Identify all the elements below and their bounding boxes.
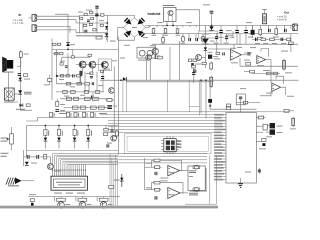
resistor R64 [287, 38, 291, 41]
resistor R35 [77, 82, 82, 85]
part PE3 [101, 70, 104, 72]
capacitor CT1 [215, 34, 218, 42]
wire -rail [140, 33, 299, 35]
wire shield h106 [189, 105, 199, 107]
svg-text:Out: Out [284, 10, 289, 14]
wire stub b1 [61, 57, 63, 63]
resistor R52 [153, 166, 161, 169]
row caption [59, 112, 107, 115]
wire block rail [52, 49, 118, 51]
part row126 a [104, 126, 108, 132]
resistor R8 [164, 28, 167, 35]
wire right h109 [210, 108, 257, 110]
label D9 [210, 40, 215, 43]
rail tick marks [150, 26, 196, 28]
resistor R23 [192, 65, 196, 68]
wire x3 link [289, 110, 294, 112]
wire cluster leg b [82, 23, 84, 33]
capacitor C9b [92, 82, 94, 85]
diode D6 [66, 42, 70, 46]
wire J1 pin2 [37, 20, 76, 23]
junction rail1 [166, 25, 168, 27]
label r219 [219, 36, 224, 39]
label R13 [257, 36, 263, 39]
resistor R14 [275, 27, 278, 36]
part on h103 [244, 101, 248, 104]
resistor R20 [250, 70, 255, 73]
resistor R4 [84, 24, 87, 26]
wire bridge diamond [124, 18, 146, 37]
label Q3 [248, 36, 253, 39]
capacitor C2 [84, 30, 87, 32]
wire bridge AC drop [117, 28, 119, 41]
resistor R50 [292, 117, 295, 127]
label blk d [53, 52, 59, 55]
label tr3 [272, 42, 277, 45]
bottom bus band [0, 206, 218, 209]
capacitor C20 top [95, 6, 99, 9]
part PE2 [90, 72, 93, 78]
capacitor C7 [18, 73, 21, 76]
label R11 [181, 42, 186, 45]
label d10 [208, 51, 213, 54]
label K1 mid [189, 175, 193, 178]
wire row y84 [57, 83, 91, 85]
svg-text:= 2 x 7,5k: = 2 x 7,5k [13, 22, 25, 25]
wire mid rail 2 [126, 81, 214, 83]
part left v [48, 75, 52, 85]
label U11 [170, 193, 176, 196]
wire rd left v [26, 126, 28, 158]
IC U8 [161, 136, 179, 154]
wire q6 stub [91, 68, 93, 74]
wire speaker down [9, 72, 19, 102]
wire q7 stub [104, 68, 106, 70]
connector box K1 shadow [190, 168, 207, 192]
resistor R38 [84, 91, 89, 94]
wire box edge stub3 [256, 131, 263, 133]
resistor R33b [77, 75, 80, 77]
capacitor C12 [27, 155, 30, 159]
wire block v3 [67, 53, 69, 75]
bridge diode B2 [138, 18, 146, 25]
resistor R31b [60, 52, 63, 54]
wire X1 stem [209, 80, 211, 109]
label R7 [152, 34, 157, 37]
resistor R42 [84, 97, 90, 100]
resistor RB2 [71, 56, 74, 58]
bridge label [132, 26, 137, 29]
capacitor CT2 [225, 34, 228, 42]
capacitor C8 [55, 109, 59, 112]
label tr1 [255, 42, 260, 45]
resistor R6 [93, 29, 96, 31]
wire mid stub2b [27, 118, 38, 122]
wire v144 [144, 158, 146, 190]
label U2 [195, 63, 201, 66]
resistor R13 [259, 28, 262, 36]
wire rail links v [163, 34, 203, 38]
wire bridge + right [146, 26, 150, 28]
resistor R18 [283, 59, 286, 71]
wire J1 tick [29, 17, 32, 19]
wire bl v [23, 150, 25, 166]
capacitor C9 [72, 74, 74, 77]
resistor R11 [182, 35, 185, 42]
wire J2 pin2 [37, 30, 76, 33]
transistor Q5 [79, 61, 86, 68]
wire U11 out [180, 192, 188, 194]
diode D4 [18, 90, 22, 94]
resistor R10 [162, 36, 165, 43]
wire bridge top [107, 15, 134, 17]
speaker LS1 [2, 57, 13, 73]
resistor R47 [98, 106, 104, 109]
resistor R34b [85, 82, 90, 85]
transistor Q7b [101, 61, 108, 68]
diode D7 [123, 77, 127, 81]
wire U4 out [266, 60, 271, 83]
resistor comb E1 [177, 141, 182, 148]
misc part a [216, 52, 220, 54]
diode D5 [20, 104, 24, 107]
label tr2 [263, 42, 268, 45]
wire rd rail [27, 125, 119, 127]
wire center v2 [118, 36, 120, 155]
label t216 [214, 42, 219, 45]
diode D10 [204, 47, 207, 51]
wire v80 [79, 72, 81, 84]
transistor Q15 [55, 197, 70, 209]
label blk h [64, 95, 69, 98]
transistor Q12 [266, 129, 275, 134]
wire bl h3 [39, 157, 50, 164]
label out1 [246, 21, 252, 24]
resistor R36 [63, 91, 68, 94]
misc part h [193, 70, 196, 73]
label Q7 [112, 59, 117, 62]
wire v205 [204, 26, 206, 48]
wire cluster rail1 [80, 14, 108, 16]
resistor+diode R-D unit 4 [86, 125, 92, 149]
label R10 [161, 42, 166, 45]
open box shield 2 [124, 134, 211, 154]
wire v 240 [239, 58, 241, 66]
label under U9 a [54, 192, 62, 195]
resistor R34 [66, 82, 71, 85]
diode D1b [105, 26, 108, 29]
resistor+diode R-D unit 3 [73, 125, 79, 149]
wire center v1 [113, 66, 115, 133]
cluster label u [86, 9, 92, 12]
wire row y107 [64, 107, 110, 109]
label r240 [240, 87, 246, 90]
wire block v2 [56, 50, 58, 84]
resistor R5b [100, 24, 103, 26]
resistor RH5 [91, 112, 96, 117]
label rail1b [186, 21, 192, 24]
label BR2 [4, 101, 14, 104]
part X8 [30, 199, 34, 206]
wire q2 down [169, 47, 171, 80]
wire q5 stub [82, 68, 84, 75]
misc label d [244, 59, 250, 62]
label in U1 [202, 33, 209, 36]
label gr [245, 171, 251, 174]
svg-text:heatsink: heatsink [148, 12, 161, 16]
wire row y99 [60, 98, 108, 100]
connector J3 [292, 24, 297, 31]
part X1 [208, 99, 212, 107]
label blk a [59, 78, 64, 81]
label r28b [60, 103, 65, 106]
wire row y92 [56, 91, 104, 93]
transistor Q18 [114, 174, 124, 187]
resistor RH2 [66, 112, 71, 117]
wire stub b2 [72, 50, 74, 56]
resistor RB1 [60, 63, 63, 65]
connector box main [226, 113, 256, 184]
junction a [96, 15, 98, 17]
misc part b [222, 52, 224, 55]
transistor Q6 [89, 61, 96, 68]
zener D2 [209, 26, 213, 30]
resistor R27 [26, 104, 30, 107]
wire v 233b [236, 34, 238, 45]
resistor R17 output [262, 9, 267, 24]
wire shield v4 [188, 80, 190, 111]
resistor R63 [270, 38, 274, 41]
misc part g [202, 62, 206, 64]
label blk e [60, 60, 65, 63]
label U5b [266, 92, 273, 95]
capacitor C1 [95, 14, 99, 17]
wire v89 [88, 84, 90, 92]
part X3 [284, 109, 289, 112]
wire U11 fb right [161, 183, 184, 193]
label R9 [176, 34, 181, 37]
label r281 [281, 50, 288, 53]
tall box K2 [185, 155, 216, 204]
wire v205b [204, 51, 206, 68]
label left v [44, 83, 49, 86]
junction rail3 [172, 25, 174, 27]
resistor R2 [84, 13, 87, 15]
capacitor C4a [219, 26, 223, 34]
mains hatch [6, 178, 16, 185]
label q14b [55, 170, 61, 173]
wire J2 pin1 [37, 26, 70, 32]
label r230 [230, 36, 235, 39]
resistor R61 [210, 62, 213, 71]
wire cluster right leg [106, 15, 108, 42]
wire top feed [55, 14, 68, 42]
op-amp U5 [272, 83, 281, 91]
wire cluster rail2 [76, 22, 107, 24]
wire v93 [92, 92, 94, 99]
label cluster mid [99, 19, 104, 22]
wire left mid [21, 102, 33, 110]
resistor RC3 [91, 18, 94, 20]
diode D1 [105, 33, 108, 37]
resistor R24 [155, 56, 160, 59]
label tr4 [281, 42, 286, 45]
resistor R21 [288, 42, 293, 45]
wire cluster left leg [79, 15, 81, 33]
resistor R19 [210, 76, 213, 88]
label topmid [203, 3, 210, 6]
wire v 2168 [216, 44, 218, 52]
wire left link [14, 93, 18, 95]
wire block v6 [102, 69, 104, 92]
capacitor C4c [244, 26, 248, 34]
svg-text:= zout 50: = zout 50 [277, 15, 287, 18]
label r287 [287, 95, 294, 98]
part X6 [103, 133, 107, 136]
wire bus top line [57, 111, 290, 113]
label r55b [146, 186, 152, 189]
label margin1 [1, 152, 9, 155]
wire shield v2 [125, 80, 127, 111]
resistor D1 series [96, 36, 102, 39]
resistor R43 [92, 97, 98, 100]
junction v8 [200, 79, 202, 81]
resistor+diode R-D unit 1 [44, 125, 50, 149]
capacitor C14 [155, 172, 158, 175]
wire +rail [145, 25, 299, 27]
wire bridge bottom [118, 37, 135, 40]
resistor RH1 [50, 112, 55, 117]
cap CP2 [191, 63, 194, 66]
label speaker [3, 71, 14, 74]
svg-text:= level 5k: = level 5k [277, 20, 288, 22]
label blk g [98, 84, 103, 87]
wire mains link [22, 180, 34, 182]
wire center v7 [193, 80, 195, 83]
resistor R66 [193, 59, 196, 62]
wire fb U3 [233, 44, 235, 49]
wire U10 fb right [161, 161, 182, 171]
capacitor C27 [281, 38, 284, 41]
label R14 [273, 36, 279, 39]
capacitor C15 [155, 196, 158, 199]
wire Q4 down [145, 60, 147, 80]
wire rail stubs [253, 26, 291, 29]
label blk f [86, 72, 91, 75]
capacitor C13 [36, 155, 39, 159]
label mid ab2 [161, 179, 168, 182]
potentiometer P1 [7, 127, 14, 150]
resistor R30b [55, 52, 58, 54]
wire mid stub [56, 99, 58, 102]
bridge diode B4 [138, 31, 146, 38]
transistor Q13 [111, 135, 117, 141]
transistor Q3 [251, 26, 255, 39]
label D4 [24, 92, 32, 95]
wire fb U4 [261, 49, 269, 57]
resistor R41 [74, 97, 79, 100]
wire h 49 [208, 48, 231, 50]
wire block v4 [84, 72, 86, 92]
wire opamp feed2 [145, 189, 153, 191]
heatsink part number [163, 4, 175, 7]
wire opamp feed1 [145, 166, 153, 168]
dark part DP1 [208, 55, 218, 59]
misc label f [285, 71, 292, 74]
label mid ab [161, 177, 169, 180]
label blk b [70, 85, 75, 88]
box lower right [236, 94, 245, 105]
capacitor CB1 [65, 65, 68, 67]
label d8 [31, 162, 37, 165]
wire h 73 [252, 73, 280, 75]
wire U11 fb [152, 183, 155, 190]
misc label e [263, 69, 270, 72]
label K1 bottom [189, 193, 198, 196]
resistor R12 [202, 35, 205, 42]
label cluster top [78, 11, 83, 14]
wire h 52 [244, 52, 252, 54]
resistor R20b [267, 72, 272, 75]
wire bus B staircase [53, 154, 207, 171]
junction d7 [120, 79, 122, 81]
resistor R39 [95, 91, 100, 94]
label margin2 [1, 155, 7, 158]
wire block h2 [62, 56, 90, 58]
label d6 [70, 43, 75, 46]
resistor R30 [53, 43, 56, 45]
label U7 [138, 59, 150, 62]
label c8b [60, 109, 65, 112]
wire bridge AC left [118, 27, 124, 29]
resistor R9 [176, 28, 179, 34]
label R25 [24, 53, 29, 56]
cluster caption [76, 34, 103, 37]
boxed drivers U7 [137, 47, 156, 58]
resistor R55 [153, 188, 161, 191]
resistor R37 [71, 91, 76, 94]
label q13 [107, 142, 112, 145]
op-amp U10 [168, 165, 180, 175]
diode D8 [25, 162, 29, 166]
transistor Q4 [146, 55, 152, 61]
wire h 71 [244, 71, 250, 73]
part X2 [226, 104, 230, 107]
wire cluster rail3 [76, 32, 107, 34]
capacitor C22 [195, 38, 198, 41]
part row126 c [115, 130, 118, 138]
wire fb U5 [276, 76, 284, 84]
label under U9 c [77, 192, 85, 195]
wire h 44 [152, 43, 298, 45]
wire U10 out [180, 170, 188, 172]
resistor+diode R-D unit 2 [57, 125, 63, 149]
wire v 193 [193, 68, 195, 80]
wire h 66 [240, 65, 298, 67]
box around Q7 [99, 59, 112, 71]
transistor Q14 [47, 164, 53, 170]
resistor RH4 [83, 112, 88, 117]
label Q12 [277, 131, 283, 134]
wire right col b [290, 34, 292, 42]
wire J1 pin1 [37, 15, 80, 17]
part top57 [88, 54, 91, 56]
op-amp U3 [231, 50, 242, 61]
net label stack [100, 114, 226, 181]
label U3 [231, 61, 238, 64]
wire mid stub2 [38, 117, 109, 119]
wire right h103 [236, 102, 260, 104]
